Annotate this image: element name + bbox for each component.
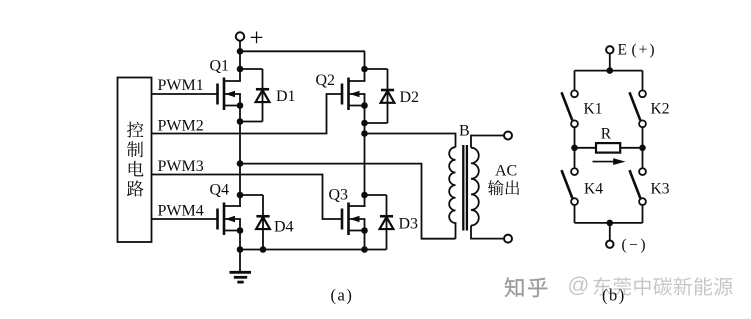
wire	[239, 41, 241, 52]
wire	[574, 71, 576, 91]
node B junction	[361, 130, 368, 137]
svg-text:Q2: Q2	[316, 72, 336, 89]
svg-text:PWM4: PWM4	[158, 203, 204, 220]
junction	[237, 102, 244, 109]
junction	[639, 145, 646, 152]
wire PWM3 net	[152, 175, 343, 220]
wire PWM1 net	[152, 93, 218, 95]
junction	[237, 48, 244, 55]
transistor Q2	[342, 78, 365, 111]
diode D1	[256, 69, 296, 122]
wire node A to transformer primary bottom	[240, 164, 456, 239]
junction	[361, 66, 368, 73]
junction	[361, 120, 368, 127]
junction	[237, 192, 244, 199]
svg-text:Q4: Q4	[210, 182, 230, 199]
transistor Q4	[218, 203, 241, 236]
svg-text:D4: D4	[274, 219, 294, 236]
wire	[239, 106, 241, 122]
battery terminal (-)	[606, 237, 648, 254]
control circuit box 控制电路	[118, 78, 152, 243]
svg-text:PWM2: PWM2	[158, 118, 204, 135]
current direction arrow	[593, 158, 626, 165]
svg-text:E: E	[618, 42, 627, 59]
svg-text:D1: D1	[276, 88, 296, 105]
svg-text:B: B	[459, 123, 470, 140]
transistor Q3	[342, 203, 365, 236]
watermark 知乎 logo text	[505, 277, 548, 297]
wire	[364, 134, 366, 208]
diode D3	[380, 195, 418, 250]
svg-text:@: @	[568, 273, 590, 297]
watermark @东莞中碳新能源	[568, 273, 733, 297]
svg-text:K2: K2	[651, 101, 670, 118]
switch K4	[562, 168, 604, 205]
wire	[364, 106, 366, 124]
wire	[239, 51, 241, 81]
wire	[364, 231, 366, 250]
svg-text:PWM3: PWM3	[158, 158, 204, 175]
junction	[607, 67, 614, 74]
junction	[237, 118, 244, 125]
svg-text:D3: D3	[399, 216, 419, 233]
transistor Q1	[218, 78, 241, 111]
wire bottom rail	[575, 222, 643, 224]
svg-text:+: +	[250, 25, 264, 52]
node A junction	[237, 160, 244, 167]
junction	[237, 66, 244, 73]
svg-text:Q1: Q1	[210, 58, 230, 75]
svg-text:AC: AC	[495, 163, 517, 180]
svg-text:D2: D2	[400, 89, 420, 106]
wire	[609, 54, 611, 71]
diode D4	[256, 195, 293, 250]
diode D2	[381, 69, 419, 123]
wire	[240, 50, 365, 52]
wire	[239, 122, 241, 164]
wire secondary top	[471, 136, 504, 148]
wire	[609, 223, 611, 241]
junction	[237, 246, 244, 253]
svg-text:R: R	[601, 126, 612, 143]
AC output terminal bottom	[504, 235, 512, 243]
wire	[642, 205, 644, 223]
junction	[260, 246, 267, 253]
svg-text:(−): (−)	[622, 237, 649, 254]
wire	[364, 69, 366, 81]
switch K2	[630, 90, 670, 127]
wire PWM2 net	[152, 94, 343, 134]
battery terminal E(+)	[606, 42, 656, 59]
svg-text:Q3: Q3	[329, 187, 349, 204]
transformer B secondary winding	[471, 148, 479, 226]
wire secondary bottom	[471, 226, 504, 239]
svg-text:K4: K4	[584, 181, 603, 198]
wire	[240, 194, 263, 196]
wire	[365, 122, 388, 124]
wire	[239, 164, 241, 207]
svg-text:K1: K1	[584, 101, 603, 118]
wire	[642, 127, 644, 148]
wire	[240, 121, 263, 123]
junction	[361, 227, 368, 234]
svg-text:PWM1: PWM1	[158, 77, 204, 94]
wire	[574, 127, 576, 148]
wire bottom rail	[240, 249, 387, 251]
svg-text:K3: K3	[651, 181, 670, 198]
junction	[237, 227, 244, 234]
wire	[642, 71, 644, 91]
ground	[230, 250, 252, 283]
switch K3	[630, 168, 670, 205]
svg-text:(a): (a)	[331, 286, 354, 305]
wire node B to transformer primary top	[365, 134, 456, 148]
junction	[361, 102, 368, 109]
resistor R	[575, 126, 643, 153]
wire	[364, 51, 366, 69]
junction	[607, 220, 614, 227]
wire top rail	[575, 70, 643, 72]
wire	[574, 205, 576, 223]
AC output terminal top	[504, 132, 512, 140]
wire	[365, 194, 387, 196]
wire	[239, 231, 241, 250]
label AC 输出	[488, 163, 519, 196]
transformer B core	[463, 145, 467, 231]
wire	[642, 148, 644, 168]
transformer B primary winding	[449, 147, 455, 239]
svg-text:(+): (+)	[632, 42, 657, 59]
wire	[574, 148, 576, 168]
junction	[361, 192, 368, 199]
switch K1	[562, 90, 603, 127]
wire	[365, 68, 388, 70]
svg-text:(b): (b)	[602, 286, 626, 305]
wire PWM4 net	[152, 218, 218, 220]
junction	[361, 246, 368, 253]
junction	[571, 145, 578, 152]
wire	[364, 123, 366, 134]
DC supply terminal +	[236, 25, 264, 52]
wire	[240, 68, 263, 70]
